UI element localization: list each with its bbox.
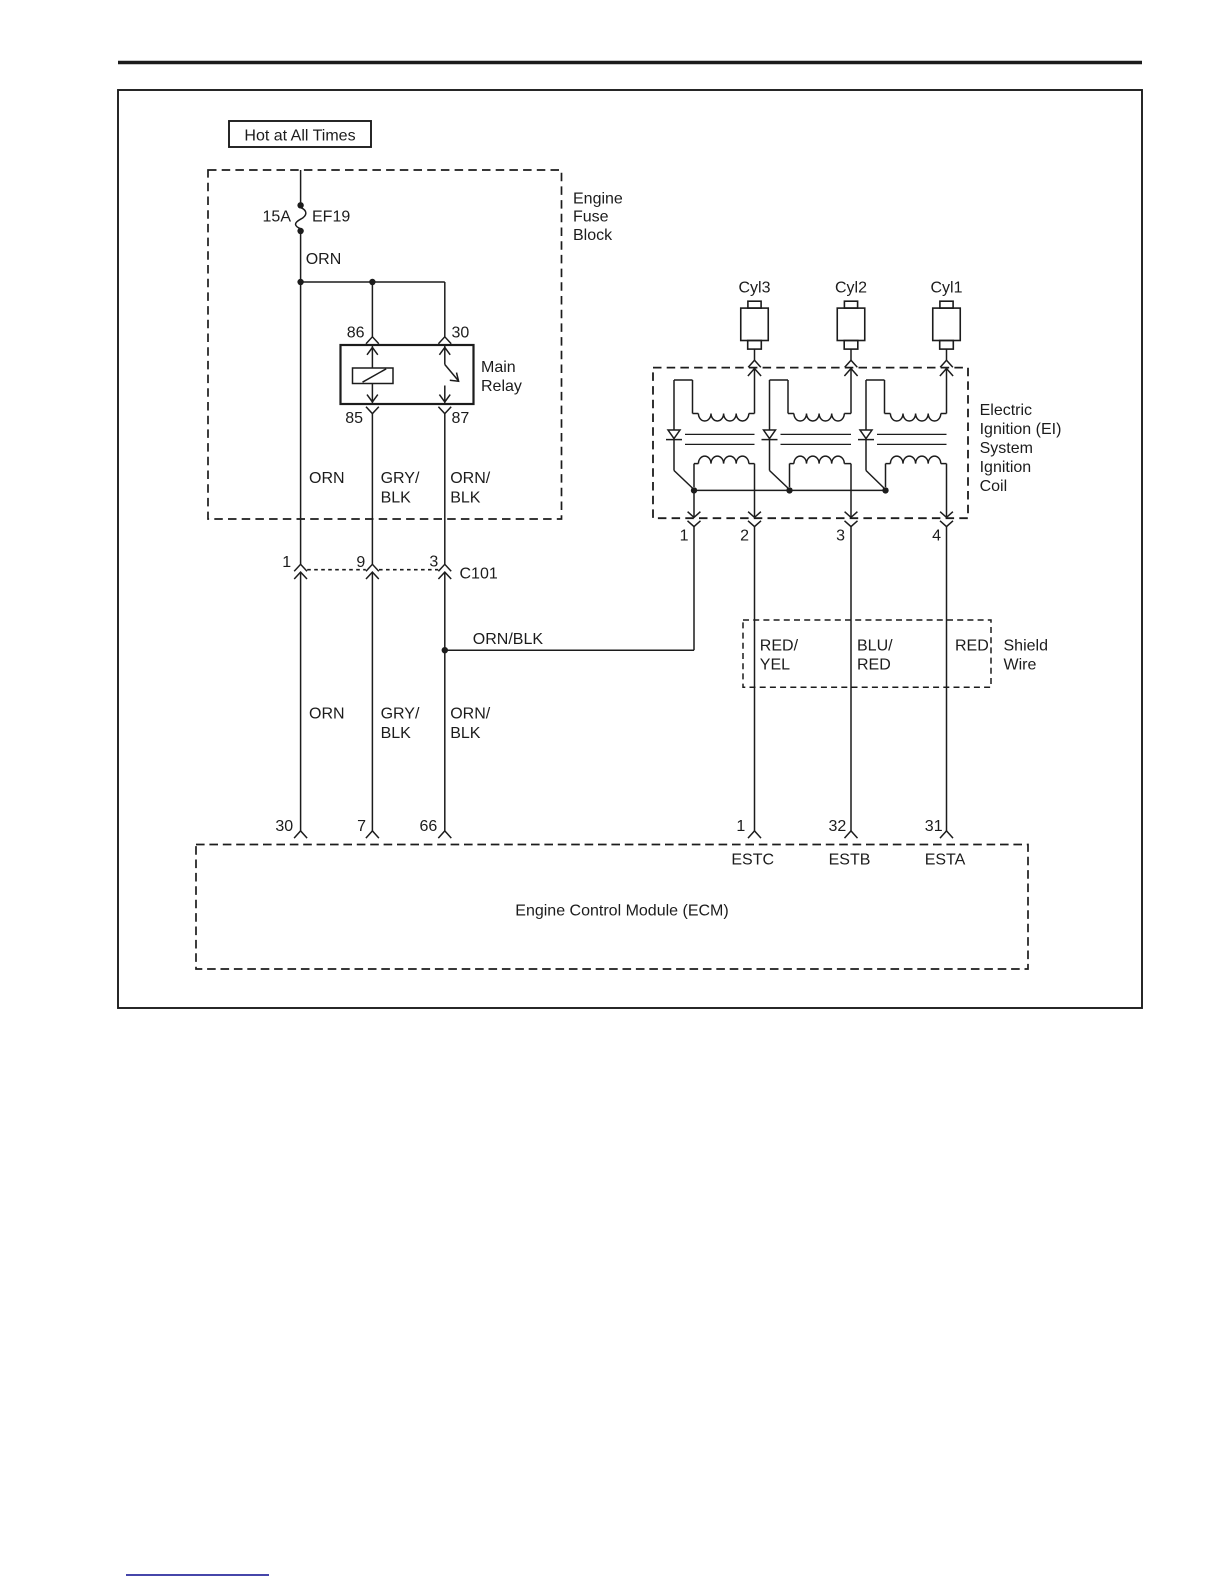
wire to relay pin 86 — [371, 282, 373, 337]
label ESTA — [925, 851, 966, 868]
ignition coil pin 2 connector — [740, 512, 761, 545]
svg-text:ESTB: ESTB — [829, 851, 871, 868]
wire ORN fuse output — [300, 233, 302, 282]
diode D3 — [666, 430, 694, 490]
label Main Relay — [481, 359, 522, 395]
svg-text:Cyl1: Cyl1 — [930, 279, 962, 296]
svg-text:BLK: BLK — [381, 725, 412, 742]
wire to relay pin 30 — [444, 282, 446, 337]
svg-text:3: 3 — [836, 528, 845, 545]
ignition coil pin 4 connector — [932, 512, 953, 545]
coil T2 primary winding — [790, 456, 852, 487]
svg-text:ORN: ORN — [309, 705, 345, 722]
footer rule — [126, 1574, 269, 1576]
svg-text:3: 3 — [429, 554, 438, 571]
svg-text:ORN: ORN — [306, 251, 342, 268]
connector C101 pin 1 — [282, 554, 307, 579]
svg-text:GRY/: GRY/ — [381, 470, 420, 487]
svg-text:4: 4 — [932, 528, 941, 545]
svg-text:System: System — [980, 440, 1033, 457]
shield wire dashed box — [743, 620, 991, 687]
label BLU/RED — [857, 637, 893, 673]
wire ORN to C101 pin 1 — [300, 282, 302, 564]
svg-text:GRY/: GRY/ — [381, 705, 420, 722]
coil T3 core — [685, 434, 755, 444]
wire coil pin 1 to ORN/BLK splice — [693, 490, 695, 650]
relay pin 85 connector — [345, 407, 379, 427]
coil T2 secondary winding — [770, 369, 852, 431]
node ORN/BLK splice — [442, 647, 448, 653]
ignition coil assembly dashed box — [653, 368, 968, 519]
relay coil winding — [353, 345, 394, 404]
wire GRY/BLK relay 85 to C101 pin 9 — [371, 414, 373, 565]
svg-text:87: 87 — [452, 410, 470, 427]
label ORN/BLK — [473, 631, 544, 648]
connector C101 dashed link — [307, 569, 438, 571]
svg-text:Cyl3: Cyl3 — [738, 279, 770, 296]
wire ORN/BLK C101 to ECM pin 66 — [444, 572, 446, 831]
coil T2 secondary terminal connector — [844, 360, 857, 376]
ECM pin 31 connector — [925, 818, 953, 838]
wire GRY/BLK C101 to ECM pin 7 — [371, 572, 373, 831]
wire ORN C101 to ECM pin 30 — [300, 572, 302, 831]
ECM pin 66 connector — [420, 818, 452, 838]
svg-text:Ignition: Ignition — [980, 459, 1032, 476]
svg-text:RED/: RED/ — [760, 637, 799, 654]
diode D1 — [858, 430, 886, 490]
label ORN — [306, 251, 342, 268]
wire ORN/BLK horizontal to coil pin 1 — [445, 649, 694, 651]
svg-text:Wire: Wire — [1004, 657, 1037, 674]
svg-text:BLK: BLK — [450, 489, 481, 506]
svg-text:BLK: BLK — [450, 725, 481, 742]
svg-text:30: 30 — [452, 325, 470, 342]
label RED/YEL — [760, 637, 799, 673]
svg-text:Relay: Relay — [481, 378, 522, 395]
wire ORN/BLK relay 87 to C101 pin 3 — [444, 414, 446, 565]
svg-text:Shield: Shield — [1004, 637, 1048, 654]
label Electric Ignition (EI) System Ignition Coil — [980, 402, 1062, 495]
spark plug connector Cyl3 — [738, 279, 770, 360]
label ORN upper — [309, 470, 345, 487]
ECM pin 32 connector — [829, 818, 858, 838]
svg-text:BLU/: BLU/ — [857, 637, 893, 654]
svg-text:1: 1 — [282, 554, 291, 571]
ECM pin 30 connector — [275, 818, 307, 838]
svg-text:2: 2 — [740, 528, 749, 545]
svg-text:ORN: ORN — [309, 470, 345, 487]
coil T3 primary winding — [694, 456, 755, 487]
svg-text:86: 86 — [347, 325, 365, 342]
node splice dot B — [369, 279, 375, 285]
ignition coil pin 3 connector — [836, 512, 857, 545]
svg-text:ESTA: ESTA — [925, 851, 966, 868]
label ESTC — [731, 851, 774, 868]
coil T1 primary winding — [886, 456, 947, 487]
label ORN/BLK lower — [450, 705, 491, 741]
label Engine Fuse Block — [573, 190, 623, 244]
svg-text:YEL: YEL — [760, 657, 790, 674]
connector C101 pin 3 — [429, 554, 451, 580]
power source label Hot at All Times — [229, 121, 371, 147]
svg-text:RED: RED — [955, 637, 989, 654]
fuse rating 15A — [263, 209, 292, 226]
label ORN/BLK upper — [450, 470, 491, 506]
relay U1 Main Relay box — [341, 345, 474, 404]
svg-text:ESTC: ESTC — [731, 851, 774, 868]
svg-text:EF19: EF19 — [312, 209, 350, 226]
svg-text:BLK: BLK — [381, 489, 412, 506]
coil T2 core — [781, 434, 852, 444]
label RED — [955, 637, 989, 654]
svg-text:Coil: Coil — [980, 478, 1008, 495]
svg-text:Fuse: Fuse — [573, 209, 609, 226]
svg-text:Block: Block — [573, 227, 613, 244]
svg-text:Electric: Electric — [980, 402, 1032, 419]
label Engine Control Module (ECM) — [515, 903, 728, 920]
svg-text:31: 31 — [925, 818, 943, 835]
node coil junction 1 — [691, 487, 697, 493]
svg-text:1: 1 — [736, 818, 745, 835]
wire coil common bus — [694, 489, 886, 491]
svg-text:Engine Control Module (ECM): Engine Control Module (ECM) — [515, 903, 728, 920]
label Shield Wire — [1004, 637, 1048, 673]
svg-text:30: 30 — [275, 818, 293, 835]
ECM pin 1 connector — [736, 818, 761, 838]
node splice dot A — [297, 279, 303, 285]
svg-text:ORN/: ORN/ — [450, 470, 491, 487]
node coil junction 2 — [786, 487, 792, 493]
svg-text:Hot at All Times: Hot at All Times — [244, 127, 355, 144]
coil T3 secondary winding — [674, 369, 755, 431]
wire splice feed to relay pins — [301, 281, 445, 283]
node coil junction 3 — [882, 487, 888, 493]
spark plug connector Cyl1 — [930, 279, 962, 360]
ignition coil pin 1 connector — [680, 512, 701, 545]
svg-text:C101: C101 — [460, 566, 498, 583]
coil T1 secondary terminal connector — [940, 360, 953, 376]
label ORN lower — [309, 705, 345, 722]
label C101 — [460, 566, 498, 583]
svg-text:85: 85 — [345, 410, 363, 427]
svg-text:66: 66 — [420, 818, 438, 835]
svg-text:Main: Main — [481, 359, 516, 376]
relay pin 87 connector — [438, 407, 469, 427]
wire RED coil pin 4 to ECM pin 31 — [946, 464, 948, 831]
coil T3 secondary terminal connector — [748, 360, 761, 376]
svg-text:7: 7 — [357, 818, 366, 835]
wire RED/YEL coil pin 2 to ECM pin 1 — [754, 464, 756, 831]
svg-text:Cyl2: Cyl2 — [835, 279, 867, 296]
svg-text:ORN/: ORN/ — [450, 705, 491, 722]
svg-text:RED: RED — [857, 657, 891, 674]
relay switch contact — [439, 345, 458, 404]
wire BLU/RED coil pin 3 to ECM pin 32 — [850, 464, 852, 831]
label GRY/BLK lower — [381, 705, 420, 741]
ECM Engine Control Module dashed box — [196, 845, 1028, 970]
engine fuse block — [208, 170, 562, 519]
svg-text:32: 32 — [829, 818, 847, 835]
svg-text:Ignition (EI): Ignition (EI) — [980, 421, 1062, 438]
relay pin 86 connector — [347, 325, 379, 344]
coil T1 core — [877, 434, 947, 444]
fuse EF19 — [296, 202, 306, 234]
connector C101 pin 9 — [356, 554, 378, 579]
svg-text:15A: 15A — [263, 209, 292, 226]
label GRY/BLK upper — [381, 470, 420, 506]
wire battery feed to fuse — [300, 170, 302, 203]
label ESTB — [829, 851, 871, 868]
svg-text:1: 1 — [680, 528, 689, 545]
svg-text:9: 9 — [356, 554, 365, 571]
spark plug connector Cyl2 — [835, 279, 867, 360]
svg-text:ORN/BLK: ORN/BLK — [473, 631, 544, 648]
fuse name EF19 — [312, 209, 350, 226]
svg-text:Engine: Engine — [573, 190, 623, 207]
ECM pin 7 connector — [357, 818, 379, 838]
relay pin 30 connector — [438, 325, 469, 344]
diode D2 — [762, 430, 790, 490]
coil T1 secondary winding — [866, 369, 947, 431]
